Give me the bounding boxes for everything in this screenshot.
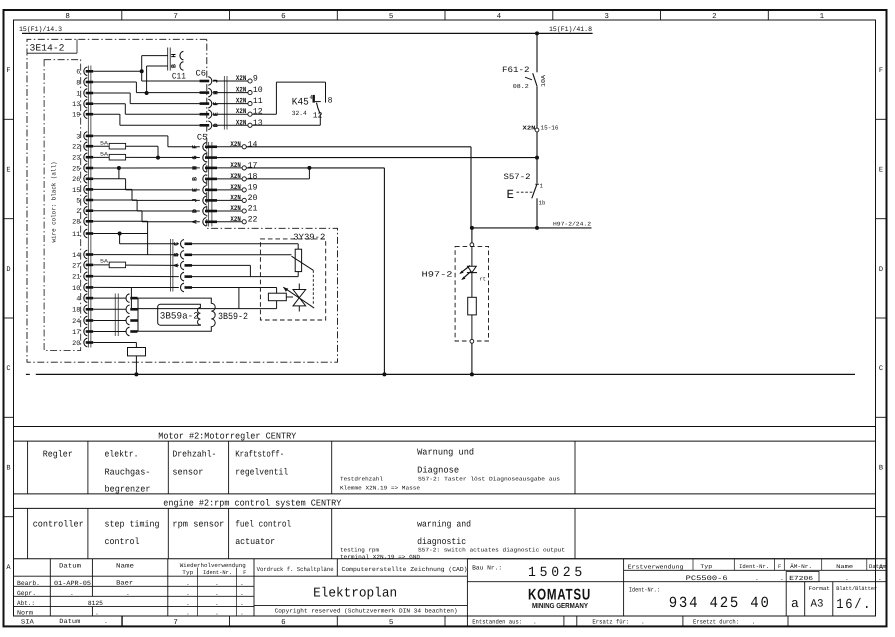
svg-text:.: .	[845, 575, 849, 582]
connector 3E14-2 pin 1	[76, 89, 93, 99]
svg-text:27: 27	[72, 262, 80, 270]
connector 3E14-2 pin 23	[72, 153, 93, 163]
svg-text:.: .	[755, 575, 759, 582]
svg-text:.: .	[878, 575, 882, 582]
junction X2N.17 bus	[382, 372, 386, 376]
connector 3E14-2 pin 3	[76, 132, 93, 142]
svg-text:01-APR-05: 01-APR-05	[54, 580, 91, 587]
connector 3E14-2 pin 8	[76, 78, 93, 88]
wire H97-2 to ground bus	[471, 343, 473, 374]
wire pin19 to C6.D	[93, 114, 200, 125]
svg-text:Vordruck f. Schaltpläne: Vordruck f. Schaltpläne	[257, 566, 334, 573]
svg-text:B: B	[6, 465, 10, 473]
svg-text:diagnostic: diagnostic	[417, 537, 466, 547]
svg-text:Abt.:: Abt.:	[17, 600, 35, 607]
box wire color note	[44, 60, 81, 351]
wire bus to F61-2	[536, 33, 538, 72]
svg-text:11: 11	[72, 231, 80, 239]
connector C6 pin E / X2N.12	[200, 108, 263, 119]
svg-text:C: C	[173, 242, 180, 246]
svg-text:X2N: X2N	[523, 124, 537, 131]
svg-text:15025: 15025	[528, 565, 586, 581]
svg-text:Motor #2:Motorregler CENTRY: Motor #2:Motorregler CENTRY	[158, 431, 297, 441]
wire resistor to bus	[135, 356, 137, 375]
svg-text:Ersatz für:: Ersatz für:	[592, 618, 629, 625]
junction H97-2 bus	[470, 372, 474, 376]
svg-text:4: 4	[497, 13, 502, 21]
wire pin2 to C5.A	[93, 211, 200, 222]
svg-text:.: .	[533, 618, 537, 625]
wire pin26 to C5.E	[93, 179, 200, 190]
svg-text:F61-2: F61-2	[502, 66, 530, 75]
svg-text:elektr.: elektr.	[105, 450, 139, 460]
wire to H97-2	[471, 228, 473, 243]
svg-text:3E14-2: 3E14-2	[30, 43, 65, 54]
lamp H97-2	[422, 243, 489, 343]
svg-text:C5: C5	[197, 133, 208, 143]
junction X2N.17/18	[307, 166, 311, 170]
svg-text:Ident-Nr.:: Ident-Nr.:	[629, 587, 660, 594]
svg-text:E7206: E7206	[789, 575, 813, 582]
svg-text:begrenzer: begrenzer	[105, 484, 151, 494]
svg-text:2: 2	[712, 12, 717, 21]
svg-text:.: .	[215, 580, 219, 587]
svg-text:3: 3	[76, 133, 80, 141]
connector X2N pin 21	[217, 205, 258, 214]
svg-text:engine #2:rpm control system C: engine #2:rpm control system CENTRY	[163, 499, 342, 509]
svg-text:S57-2: S57-2	[504, 173, 531, 182]
column number strip top	[65, 10, 824, 21]
svg-text:23: 23	[72, 155, 80, 163]
fuse 5A pin22	[93, 141, 158, 158]
wire pin13 to C6.E	[93, 104, 200, 115]
wire pin11 to CV.C	[120, 234, 179, 244]
svg-text:4: 4	[76, 296, 80, 304]
connector X2N pin 19	[217, 183, 258, 192]
svg-text:SIA: SIA	[21, 618, 34, 625]
svg-text:terminal X2N.19 => GND: terminal X2N.19 => GND	[340, 553, 421, 560]
svg-text:E: E	[879, 167, 883, 175]
wire pin20 to resistor	[93, 343, 136, 348]
svg-text:S57-2: switch actuates diagnos: S57-2: switch actuates diagnostic output	[418, 547, 565, 554]
connector 3Y39 pin x	[181, 272, 192, 281]
svg-text:21: 21	[248, 205, 258, 214]
svg-text:15: 15	[72, 187, 80, 195]
svg-text:X2N: X2N	[230, 162, 240, 170]
svg-text:Ident-Nr.: Ident-Nr.	[739, 563, 769, 570]
svg-text:1: 1	[540, 183, 544, 190]
label 3E14-2	[27, 39, 77, 53]
svg-text:Gepr.: Gepr.	[17, 590, 36, 597]
svg-text:.: .	[70, 590, 74, 597]
svg-text:6: 6	[281, 618, 286, 627]
svg-text:.: .	[641, 618, 645, 625]
svg-text:F: F	[778, 563, 781, 570]
junction pin22/23 G	[156, 156, 160, 160]
fuse F61-2	[502, 66, 547, 90]
ground bus minus label	[26, 373, 30, 375]
wire C11.B tap	[147, 66, 168, 93]
relay contact K45	[292, 94, 333, 120]
connector C5 pin F	[192, 143, 217, 152]
svg-text:934 425 40: 934 425 40	[669, 594, 771, 612]
connector C5 pin H	[192, 164, 217, 173]
wire pin1 to C6.F	[93, 93, 200, 104]
box 3E14-2 boundary	[27, 39, 338, 362]
svg-text:fuel control: fuel control	[235, 519, 291, 529]
wire 3Y39 pin5 to damper	[131, 287, 276, 308]
connector 3E14-2 pin 13	[72, 99, 93, 109]
svg-text:Kraftstoff-: Kraftstoff-	[235, 450, 284, 460]
wire J-row C11 to C6.J	[141, 71, 143, 81]
svg-text:H97-2: H97-2	[422, 270, 453, 279]
svg-text:X2N: X2N	[230, 205, 240, 213]
svg-text:Ersetzt durch:: Ersetzt durch:	[693, 618, 739, 625]
svg-text:X2N: X2N	[236, 75, 246, 83]
connector 3E14-2 pin 17	[72, 327, 93, 337]
wire pin6 to C11.H	[93, 56, 168, 72]
svg-text:Datum: Datum	[59, 618, 80, 625]
wire K45 to X2N.13	[252, 114, 320, 126]
svg-text:F: F	[243, 569, 246, 576]
svg-text:X2N: X2N	[230, 216, 240, 224]
connector 3Y39 pin x	[181, 283, 192, 292]
svg-text:08.2: 08.2	[513, 83, 529, 90]
connector 3E14-2 pin 4	[76, 294, 93, 304]
row letter strip right	[876, 67, 887, 572]
wire damper to valve	[286, 296, 293, 298]
svg-text:3B59-2: 3B59-2	[218, 311, 248, 322]
svg-text:25: 25	[72, 165, 80, 173]
connector 3B59 pin 3	[93, 316, 137, 325]
connector C5 pin A	[192, 218, 217, 227]
svg-text:X2N: X2N	[236, 119, 246, 127]
connector 3E14-2 pin 28	[72, 217, 93, 227]
svg-text:Testdrehzahl: Testdrehzahl	[340, 476, 384, 483]
connector C5 pin G	[192, 153, 217, 162]
svg-text:16/.: 16/.	[836, 597, 872, 613]
wire 3Y39.A to coil bottom	[192, 265, 299, 276]
svg-text:B: B	[879, 465, 883, 473]
connector 3E14-2 pin 22	[72, 142, 93, 152]
connector 3E14-2 pin 5	[76, 196, 93, 206]
svg-text:X2N: X2N	[236, 87, 246, 95]
svg-text:Ident-Nr.: Ident-Nr.	[203, 569, 232, 576]
svg-text:Datum: Datum	[59, 562, 81, 569]
svg-text:.: .	[752, 618, 756, 625]
svg-text:K45: K45	[292, 97, 309, 108]
connector 3E14-2 pin 26	[72, 175, 93, 185]
connector 3E14-2 pin 2	[76, 206, 93, 216]
junction C11.B to H-wire	[145, 91, 149, 95]
svg-text:Erstverwendung: Erstverwendung	[628, 563, 684, 570]
svg-text:D: D	[879, 266, 883, 274]
svg-text:1: 1	[820, 13, 825, 21]
wire X2N.18 to 17	[246, 168, 309, 179]
title block	[14, 559, 887, 627]
column number strip bottom	[122, 616, 445, 627]
connector 3E14-2 pin 14	[72, 250, 93, 260]
connector 3E14-2 pin 10	[72, 283, 93, 293]
svg-text:8: 8	[65, 12, 70, 21]
svg-text:13: 13	[72, 101, 80, 109]
svg-text:Name: Name	[836, 563, 853, 570]
connector X2N pin 17	[217, 161, 258, 170]
connector 3Y39 pin A	[173, 261, 192, 270]
wire S57-2 to H97-2 node	[536, 198, 538, 228]
svg-text:Name: Name	[116, 562, 134, 569]
connector C11	[168, 48, 186, 82]
svg-text:.: .	[780, 575, 784, 582]
svg-text:Datum: Datum	[869, 563, 887, 570]
svg-text:E: E	[507, 188, 515, 202]
svg-text:18: 18	[72, 307, 80, 315]
connector 3Y39 pin C	[173, 240, 192, 249]
svg-text:18: 18	[248, 172, 258, 181]
connector C6 pin F / X2N.11	[200, 97, 263, 108]
connector 3B59 pin 1	[93, 294, 137, 303]
connector 3B59 pin 2	[93, 305, 137, 314]
function table	[14, 427, 876, 561]
svg-text:10: 10	[253, 86, 263, 95]
wire pin5 to C5.D	[93, 200, 200, 211]
svg-text:rpm sensor: rpm sensor	[172, 519, 224, 529]
svg-text:8: 8	[328, 96, 333, 105]
svg-text:7: 7	[173, 13, 178, 21]
svg-text:7: 7	[173, 619, 178, 627]
svg-text:5: 5	[76, 197, 80, 205]
svg-text:wire color: black (all): wire color: black (all)	[51, 162, 58, 243]
svg-text:6: 6	[76, 69, 80, 77]
svg-text:H: H	[171, 53, 178, 57]
connector C6 pin D / X2N.13	[200, 119, 263, 130]
connector 3E14-2 pin 18	[72, 305, 93, 315]
svg-text:.: .	[186, 590, 190, 597]
svg-text:C: C	[879, 365, 883, 373]
wire X2N.17 row	[246, 168, 384, 375]
wire F61-2 to X2N.15-16	[536, 86, 538, 128]
svg-text:F: F	[6, 67, 10, 75]
svg-text:.: .	[240, 580, 244, 587]
svg-text:17: 17	[248, 161, 258, 170]
svg-text:.: .	[126, 590, 130, 597]
svg-text:.: .	[240, 590, 244, 597]
svg-text:PC5500-6: PC5500-6	[686, 575, 728, 583]
svg-text:1b: 1b	[539, 199, 546, 206]
connector X2N pin 22	[217, 215, 258, 224]
svg-text:10: 10	[72, 285, 80, 293]
connector 3E14-2 pin 11	[72, 229, 93, 239]
wire pin21 to 3Y39 pin4	[93, 275, 179, 277]
svg-text:Computererstellte Zeichnung (C: Computererstellte Zeichnung (CAD)	[342, 566, 468, 573]
wire 3Y39.B row	[192, 254, 292, 256]
svg-text:F: F	[879, 67, 883, 75]
connector X2N pin 18	[217, 172, 258, 181]
junction bus to F61-2	[535, 31, 539, 35]
wire pin11	[93, 233, 147, 235]
connector 3E14-2 pin 24	[72, 316, 93, 326]
wire pin25 to C5.H	[93, 167, 200, 169]
connector 3E14-2 pin 15	[72, 185, 93, 195]
svg-text:B: B	[171, 64, 178, 68]
svg-text:14: 14	[72, 252, 80, 260]
svg-text:MINING GERMANY: MINING GERMANY	[532, 601, 588, 610]
wire pin10 to 3Y39 pin5	[93, 286, 179, 288]
connector 3E14-2 pin 19	[72, 110, 93, 120]
svg-text:B: B	[192, 177, 199, 181]
svg-text:22: 22	[248, 215, 258, 224]
svg-text:Entstanden aus:: Entstanden aus:	[472, 618, 522, 625]
svg-text:D: D	[6, 266, 10, 274]
connector C5 pin J	[192, 196, 217, 205]
switch S57-2	[504, 173, 546, 207]
svg-text:ÄM-Nr.: ÄM-Nr.	[790, 563, 812, 570]
svg-text:a: a	[791, 596, 799, 611]
svg-text:8: 8	[76, 79, 80, 87]
svg-text:X2N: X2N	[230, 173, 240, 181]
svg-text:.: .	[215, 600, 219, 607]
solenoid coil 3Y39-2	[295, 249, 301, 271]
svg-text:Klemme X2N.19 => Masse: Klemme X2N.19 => Masse	[340, 484, 420, 491]
svg-text:19: 19	[72, 112, 80, 120]
svg-text:21: 21	[72, 274, 80, 282]
svg-text:.: .	[186, 609, 190, 616]
svg-text:X2N: X2N	[236, 98, 246, 106]
connector 3E14-2 pin 27	[72, 261, 93, 271]
svg-text:Warnung und: Warnung und	[417, 448, 474, 458]
wire X2N.12 to K45	[252, 82, 325, 114]
connector X2N pin 14	[217, 140, 258, 149]
svg-text:.: .	[240, 600, 244, 607]
junction H97-2 top	[470, 226, 474, 230]
svg-text:5: 5	[389, 619, 394, 627]
svg-text:C: C	[6, 365, 10, 373]
wire pin14 to 3Y39.B	[93, 254, 179, 256]
svg-text:Typ: Typ	[700, 563, 712, 570]
svg-text:15(F1)/14.3: 15(F1)/14.3	[19, 26, 62, 34]
svg-text:warning and: warning and	[417, 519, 471, 529]
wire pin3 to C5.F	[93, 136, 200, 147]
wire 3Y39.C to coil	[192, 244, 299, 249]
svg-text:28: 28	[72, 219, 80, 227]
connector C5 pin E	[192, 186, 217, 195]
svg-text:C11: C11	[172, 72, 186, 82]
junction S57-2 bottom	[535, 226, 539, 230]
svg-text:12: 12	[313, 111, 323, 120]
svg-text:Blatt/Blätter: Blatt/Blätter	[836, 585, 877, 592]
svg-text:Bau Nr.:: Bau Nr.:	[472, 565, 502, 572]
connector X2N pin 15-16	[523, 124, 559, 132]
svg-text:X2N: X2N	[230, 141, 240, 149]
connector C6 pin H / X2N.10	[200, 86, 263, 97]
wire X2N.15-16 to S57-2	[536, 132, 538, 184]
svg-text:3Y39-2: 3Y39-2	[293, 233, 325, 243]
svg-text:20: 20	[72, 340, 80, 348]
svg-text:26: 26	[72, 176, 80, 184]
svg-text:15(F1)/41.8: 15(F1)/41.8	[549, 26, 592, 34]
svg-text:.: .	[240, 609, 244, 616]
svg-text:14: 14	[248, 140, 258, 149]
svg-text:Typ: Typ	[182, 569, 193, 576]
svg-text:X2N: X2N	[230, 194, 240, 202]
row letter strip left	[4, 67, 14, 572]
svg-text:.: .	[186, 600, 190, 607]
svg-text:6: 6	[281, 12, 286, 21]
svg-text:5A: 5A	[100, 259, 109, 265]
connector X2N pin 20	[217, 194, 258, 203]
connector C5 pin D	[192, 207, 217, 216]
connector 3E14-2 pin 25	[72, 164, 93, 174]
svg-text:.: .	[186, 580, 190, 587]
svg-text:rt: rt	[480, 276, 486, 282]
wire pin15 to C5.J	[93, 189, 200, 200]
svg-text:.: .	[95, 609, 99, 616]
svg-text:Drehzahl-: Drehzahl-	[172, 450, 216, 460]
svg-text:5A: 5A	[100, 152, 109, 158]
connector 3Y39 cable lines	[170, 239, 173, 292]
valve symbol 3Y39-2	[283, 284, 314, 312]
svg-text:Norm: Norm	[17, 609, 33, 616]
wire ground bus	[36, 373, 855, 375]
svg-text:17: 17	[72, 329, 80, 337]
wire pin8 to C6.H	[93, 82, 200, 93]
connector C6 cable lines	[224, 76, 227, 130]
svg-text:12: 12	[253, 108, 263, 117]
svg-text:C6: C6	[196, 68, 207, 78]
svg-text:control: control	[105, 537, 140, 547]
connector C5 pin B	[192, 175, 217, 184]
wire pin26 tap	[118, 168, 120, 179]
svg-text:8125: 8125	[88, 600, 103, 607]
svg-text:2: 2	[76, 208, 80, 216]
svg-text:22: 22	[72, 144, 80, 152]
svg-text:24: 24	[72, 318, 80, 326]
wire bus 15(F1)	[22, 32, 593, 34]
svg-text:10A: 10A	[540, 75, 547, 87]
svg-text:3B59a-2: 3B59a-2	[160, 311, 199, 322]
svg-text:5: 5	[389, 13, 394, 21]
svg-text:.: .	[104, 618, 108, 625]
svg-text:step timing: step timing	[105, 519, 160, 529]
svg-text:E: E	[6, 167, 10, 175]
svg-text:Bearb.: Bearb.	[17, 580, 40, 587]
resistor termination	[128, 348, 146, 356]
svg-text:20: 20	[248, 194, 258, 203]
sensor body 3B59	[138, 298, 215, 331]
label box 3B59a-2	[158, 304, 201, 325]
svg-text:S57-2: Taster löst Diagnoseaus: S57-2: Taster löst Diagnoseausgabe aus	[418, 476, 560, 483]
svg-text:Elektroplan: Elektroplan	[313, 587, 397, 602]
connector 3E14-2 cable lines	[88, 66, 91, 348]
svg-text:Rauchgas-: Rauchgas-	[105, 467, 151, 477]
junction resistor bus	[134, 372, 138, 376]
svg-text:Regler: Regler	[43, 450, 73, 460]
svg-text:H97-2/24.2: H97-2/24.2	[553, 220, 591, 227]
junction node G-row	[535, 156, 539, 160]
connector 3E14-2 pin 20	[72, 338, 93, 348]
svg-text:A3: A3	[811, 598, 824, 610]
svg-text:9: 9	[253, 75, 258, 84]
svg-text:.: .	[215, 590, 219, 597]
svg-text:11: 11	[253, 97, 263, 106]
connector 3E14-2 pin 21	[72, 272, 93, 282]
actuator diagonal 3Y39-2	[292, 256, 314, 304]
wire node to H97-2/24.2	[472, 227, 592, 229]
svg-text:Baer: Baer	[116, 579, 133, 586]
junction pin25/26	[117, 166, 121, 170]
box 3Y39-2	[260, 239, 325, 320]
svg-text:.: .	[215, 609, 219, 616]
